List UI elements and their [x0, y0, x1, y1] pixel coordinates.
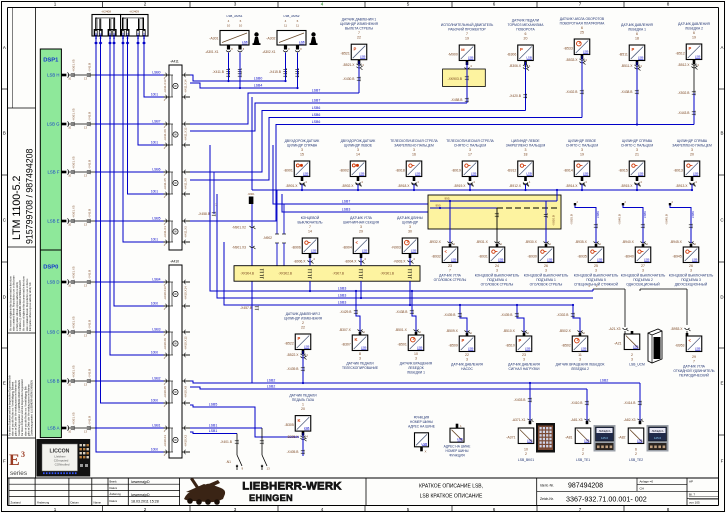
- svg-text:ЦИЛИНДР СПРАВА: ЦИЛИНДР СПРАВА: [622, 139, 653, 143]
- svg-text:Fur dieses Dokument und den da: Fur dieses Dokument und den dargestellte…: [8, 374, 11, 436]
- wire to B931: [496, 208, 498, 243]
- yellow box -X930.B: [428, 195, 561, 229]
- svg-text:10: 10: [239, 23, 243, 27]
- Liebherr logo: [184, 478, 342, 505]
- svg-text:3: 3: [690, 269, 692, 273]
- svg-text:LSB G: LSB G: [47, 121, 60, 126]
- svg-text:6: 6: [581, 26, 583, 30]
- svg-text:-B904: -B904: [342, 246, 351, 250]
- sensor -B906: [291, 216, 322, 264]
- svg-text:3: 3: [525, 148, 527, 152]
- svg-text:LIEBHERR-WERK: LIEBHERR-WERK: [242, 481, 342, 493]
- svg-text:P: P: [631, 47, 634, 52]
- svg-text:-B906: -B906: [291, 246, 300, 250]
- LICCON monitor: [36, 439, 90, 477]
- svg-text:-N903: -N903: [391, 246, 401, 250]
- svg-text:-X429.B: -X429.B: [340, 310, 353, 314]
- svg-text:alten wir uns alle Rechte vor.: alten wir uns alle Rechte vor. Vervielfa…: [12, 381, 15, 436]
- svg-text:3: 3: [360, 225, 362, 229]
- svg-text:-B902: -B902: [339, 169, 348, 173]
- svg-text:10b1: 10b1: [126, 33, 130, 39]
- svg-text:LSB: LSB: [451, 258, 457, 262]
- svg-text:LSB: LSB: [361, 346, 367, 350]
- connector -N901.X2: [232, 225, 255, 229]
- sensor -B521: [340, 18, 379, 70]
- svg-text:-B945.X: -B945.X: [670, 240, 683, 244]
- junction box: [249, 197, 254, 205]
- wire AMS2 pin to LSB0: [285, 53, 287, 82]
- wire AMS1 pin to LSB0: [228, 53, 230, 82]
- sensor -B533: [560, 17, 606, 65]
- svg-text:19: 19: [465, 37, 469, 41]
- svg-text:Datum: Datum: [110, 486, 118, 490]
- svg-text:LSB: LSB: [311, 249, 317, 253]
- svg-text:-A410.X14: -A410.X14: [184, 286, 188, 300]
- svg-text:LSB: LSB: [525, 347, 531, 351]
- svg-text:-X42.B: -X42.B: [88, 416, 92, 425]
- svg-text:LSB F: LSB F: [48, 169, 60, 174]
- wire -B902 to row2 bus: [357, 184, 359, 190]
- svg-text:LSB5: LSB5: [152, 216, 160, 220]
- svg-text:ТЕЛЕСКОПИЧЕСКАЯ СТРЕЛА: ТЕЛЕСКОПИЧЕСКАЯ СТРЕЛА: [390, 139, 438, 143]
- wire 10b0 x=110: [108, 31, 163, 356]
- svg-text:25: 25: [580, 31, 584, 35]
- svg-text:K: K: [354, 337, 357, 342]
- svg-text:-B906.X: -B906.X: [294, 259, 307, 263]
- svg-text:10b1: 10b1: [151, 237, 158, 241]
- svg-text:-X42.B: -X42.B: [88, 63, 92, 72]
- svg-text:-B931: -B931: [478, 255, 487, 259]
- svg-text:-B912: -B912: [507, 169, 516, 173]
- sensor -M900: [441, 23, 494, 71]
- svg-text:LSB: LSB: [692, 258, 698, 262]
- svg-text:LSB_TE2: LSB_TE2: [629, 458, 643, 462]
- display icon TE1: [594, 425, 616, 452]
- svg-text:-A410.X8: -A410.X8: [184, 386, 188, 398]
- svg-text:-A411.X1: -A411.X1: [163, 226, 167, 238]
- svg-text:22: 22: [357, 36, 361, 40]
- svg-text:17: 17: [468, 153, 472, 157]
- svg-text:ВЫКЛЮЧАТЕЛЬ: ВЫКЛЮЧАТЕЛЬ: [297, 220, 322, 224]
- wires through yellow strip down: [309, 281, 311, 291]
- svg-text:-A2408: -A2408: [101, 9, 111, 13]
- svg-text:-X438.B: -X438.B: [396, 310, 409, 314]
- svg-text:-X42.B: -X42.B: [88, 369, 92, 378]
- sensor -B918: [390, 139, 438, 187]
- svg-text:-B305.X: -B305.X: [287, 435, 300, 439]
- svg-text:Änderung: Änderung: [110, 492, 122, 496]
- sidebar disclaimer RU: [8, 374, 33, 436]
- svg-text:AP: AP: [689, 479, 693, 483]
- svg-text:Name: Name: [94, 501, 102, 505]
- keypad icon: [536, 423, 555, 453]
- row2 bus: [252, 189, 692, 191]
- svg-text:10b0: 10b0: [112, 33, 116, 39]
- svg-text:7: 7: [309, 225, 311, 229]
- svg-text:IwwemajpD: IwwemajpD: [131, 493, 150, 497]
- svg-text:-B940.X: -B940.X: [622, 240, 635, 244]
- svg-text:26: 26: [544, 264, 548, 268]
- sensor -B522: [284, 312, 323, 360]
- svg-text:P: P: [520, 47, 523, 52]
- yellow box -XK903.B: [443, 69, 486, 87]
- svg-text:ТОРМОЗ МЕХАНИЗМА: ТОРМОЗ МЕХАНИЗМА: [508, 23, 545, 27]
- connector -X457.B: [240, 306, 258, 310]
- sensor -B935: [574, 240, 619, 287]
- svg-text:LSB B: LSB B: [47, 378, 59, 383]
- svg-text:ЛЕБЕДОК: ЛЕБЕДОК: [408, 366, 424, 370]
- svg-text:ДАТЧИК УГЛА: ДАТЧИК УГЛА: [683, 364, 705, 368]
- svg-text:LSB7: LSB7: [312, 99, 321, 103]
- svg-text:P: P: [353, 46, 356, 51]
- svg-text:-X930.B: -X930.B: [552, 215, 556, 226]
- svg-text:LSB: LSB: [457, 437, 463, 441]
- svg-text:LSB: LSB: [693, 172, 699, 176]
- svg-text:B: B: [721, 131, 724, 136]
- svg-text:СИГНАЛ НАГРУЗКИ: СИГНАЛ НАГРУЗКИ: [508, 367, 540, 371]
- svg-text:alten wir uns alle Rechte vor.: alten wir uns alle Rechte vor. Vervielfa…: [24, 385, 27, 436]
- svg-text:ЛЕБЕДКА 2: ЛЕБЕДКА 2: [571, 367, 589, 371]
- svg-text:3: 3: [21, 450, 25, 459]
- svg-text:D: D: [3, 295, 6, 300]
- svg-text:20: 20: [301, 407, 305, 411]
- wire -B502 from LSB3: [572, 305, 574, 315]
- svg-text:1: 1: [302, 402, 304, 406]
- svg-text:29: 29: [359, 230, 363, 234]
- svg-text:ОГОЛОВОК СТРЕЛЫ: ОГОЛОВОК СТРЕЛЫ: [530, 282, 563, 286]
- svg-text:-XK901.B: -XK901.B: [380, 272, 394, 276]
- wire elbow -X935.B: [570, 200, 600, 243]
- svg-text:LSB: LSB: [415, 172, 421, 176]
- svg-text:gabe an Dritte oder Verwendung: gabe an Dritte oder Verwendung ausser im…: [15, 380, 18, 436]
- svg-text:10b1: 10b1: [121, 33, 125, 39]
- svg-text:-A302: -A302: [266, 37, 275, 41]
- svg-text:ЛЕБЕДКА: ЛЕБЕДКА: [652, 429, 664, 433]
- sensor -B501: [395, 328, 433, 375]
- connector -X458.B left: [198, 172, 218, 216]
- sensor -B510: [503, 329, 541, 371]
- svg-text:ПОДЪЕМА 1: ПОДЪЕМА 1: [536, 278, 556, 282]
- svg-text:ation contained therein. Repro: ation contained therein. Reproduction, u…: [13, 275, 16, 331]
- svg-text:LSB0: LSB0: [254, 77, 263, 81]
- svg-text:-X502.B: -X502.B: [678, 91, 691, 95]
- svg-text:LSB2: LSB2: [267, 379, 276, 383]
- svg-text:-B953.X: -B953.X: [671, 327, 684, 331]
- svg-text:ТЕЛЕСКОПИЧЕСКАЯ СТРЕЛА: ТЕЛЕСКОПИЧЕСКАЯ СТРЕЛА: [446, 139, 494, 143]
- svg-text:ПОДЪЕМА 2: ПОДЪЕМА 2: [633, 278, 653, 282]
- svg-text:-A361.X5: -A361.X5: [72, 316, 76, 329]
- svg-text:КОНЦЕВОЙ ВЫКЛЮЧАТЕЛЬ: КОНЦЕВОЙ ВЫКЛЮЧАТЕЛЬ: [574, 273, 619, 277]
- svg-text:ДАТЧИК ДАВЛЕНИЯ: ДАТЧИК ДАВЛЕНИЯ: [678, 22, 710, 26]
- svg-text:LSB3: LSB3: [338, 294, 347, 298]
- wire 995: [430, 200, 557, 202]
- svg-text:2: 2: [635, 452, 637, 456]
- svg-text:10b1: 10b1: [151, 189, 158, 193]
- svg-text:14: 14: [308, 230, 312, 234]
- svg-text:2: 2: [302, 321, 304, 325]
- svg-text:ЦИЛИНДР ЛЕВОЕ: ЦИЛИНДР ЛЕВОЕ: [568, 139, 597, 143]
- svg-text:LSB: LSB: [417, 346, 423, 350]
- svg-text:6: 6: [693, 31, 695, 35]
- svg-text:-B511.X: -B511.X: [621, 64, 633, 68]
- bus LSB3 3: [224, 242, 573, 305]
- wire -B901 to row2 bus: [301, 184, 303, 190]
- svg-text:-A81: -A81: [565, 436, 572, 440]
- svg-text:-X42.B: -X42.B: [88, 320, 92, 329]
- svg-text:LSB E: LSB E: [47, 218, 59, 223]
- svg-text:LSB3: LSB3: [338, 301, 347, 305]
- svg-text:-B914.X: -B914.X: [566, 184, 579, 188]
- svg-text:LSB6: LSB6: [312, 106, 321, 110]
- svg-text:НАСОС: НАСОС: [461, 367, 473, 371]
- svg-text:987494208: 987494208: [568, 483, 603, 490]
- svg-text:7: 7: [579, 507, 582, 512]
- svg-text:10b0: 10b0: [151, 301, 158, 305]
- svg-text:LSB: LSB: [362, 249, 368, 253]
- wire 10b0 x=100.5: [99, 31, 164, 404]
- anlage box: [637, 478, 687, 491]
- svg-text:-B501: -B501: [397, 343, 406, 347]
- svg-text:АДРЕС НА ШИНЕ: АДРЕС НА ШИНЕ: [408, 424, 435, 428]
- svg-text:-B502: -B502: [561, 344, 570, 348]
- switch -N1: [226, 428, 270, 471]
- svg-text:3: 3: [579, 358, 581, 362]
- svg-text:forbidden. (c) LIEBHERR-WERK: forbidden. (c) LIEBHERR-WERK EHINGEN Gmb…: [19, 280, 22, 331]
- svg-text:LSB: LSB: [583, 172, 589, 176]
- svg-text:-B953: -B953: [675, 344, 684, 348]
- svg-text:ПОДЪЕМА 3: ПОДЪЕМА 3: [681, 278, 701, 282]
- svg-text:ЦИЛИНДР СПРАВА: ЦИЛИНДР СПРАВА: [287, 143, 318, 147]
- svg-text:LSB9: LSB9: [691, 211, 695, 218]
- svg-text:-A361.X5: -A361.X5: [72, 205, 76, 218]
- svg-text:990: 990: [435, 203, 440, 207]
- bus LSB2 a: [190, 381, 640, 383]
- svg-text:-XK903.B: -XK903.B: [447, 77, 462, 81]
- svg-text:7: 7: [449, 269, 451, 273]
- wire -B912 to row2 bus: [525, 184, 527, 190]
- wire x252 drop: [251, 97, 253, 190]
- svg-text:ФУНКЦИЯ: ФУНКЦИЯ: [449, 454, 465, 458]
- svg-text:-X42.B: -X42.B: [88, 160, 92, 169]
- svg-text:LSB КРАТКОЕ ОПИСАНИЕ: LSB КРАТКОЕ ОПИСАНИЕ: [420, 494, 483, 500]
- svg-text:Zustimmung gestattet. (c) LIEB: Zustimmung gestattet. (c) LIEBHERR-WERK …: [31, 380, 34, 436]
- svg-text:ДАТЧИК ПЕДАЛИ: ДАТЧИК ПЕДАЛИ: [512, 18, 540, 22]
- svg-text:E: E: [3, 381, 6, 386]
- svg-text:P: P: [518, 338, 521, 343]
- svg-text:8: 8: [667, 507, 670, 512]
- svg-text:-N1: -N1: [226, 460, 231, 464]
- svg-text:-A82.X3: -A82.X3: [624, 418, 636, 422]
- svg-text:-B914: -B914: [563, 169, 572, 173]
- svg-text:ЦИЛИНДР СПРАВА: ЦИЛИНДР СПРАВА: [677, 139, 708, 143]
- svg-text:-A410: -A410: [170, 260, 179, 264]
- wire 10b1 x=138: [136, 31, 163, 146]
- svg-text:CH: CH: [640, 486, 644, 490]
- bus LSB4: [190, 83, 298, 88]
- svg-text:LSB6: LSB6: [152, 167, 160, 171]
- connector -A2409: [121, 9, 148, 36]
- svg-text:КРАТКОЕ ОПИСАНИЕ LSB,: КРАТКОЕ ОПИСАНИЕ LSB,: [419, 484, 483, 490]
- sensor -B902: [339, 139, 375, 187]
- svg-text:LSB A: LSB A: [48, 425, 60, 430]
- svg-text:-B522.X: -B522.X: [287, 353, 300, 357]
- svg-text:10b0: 10b0: [151, 398, 158, 402]
- wire 10b0 x=96: [94, 31, 163, 453]
- device -A81 LSB_TE1: [565, 421, 591, 462]
- svg-text:third parties without express: third parties without express authority …: [29, 281, 32, 331]
- svg-text:-X430.B: -X430.B: [343, 77, 356, 81]
- wire -B307 from LSB3: [355, 291, 357, 312]
- svg-text:LSB: LSB: [583, 50, 589, 54]
- svg-text:10b1: 10b1: [151, 140, 158, 144]
- wire elbow -X945.B: [665, 200, 695, 243]
- svg-text:3: 3: [496, 269, 498, 273]
- bus LSB6 a: [190, 111, 526, 173]
- svg-text:LSB: LSB: [637, 439, 643, 443]
- sensor -B306: [507, 18, 544, 70]
- svg-text:-A361.X5: -A361.X5: [72, 156, 76, 169]
- sensor -B913: [672, 139, 712, 187]
- svg-text:P: P: [688, 46, 691, 51]
- svg-text:LSB: LSB: [471, 172, 477, 176]
- svg-text:125.0: 125.0: [654, 436, 661, 440]
- svg-text:LSB_UCM: LSB_UCM: [629, 362, 645, 366]
- svg-text:18: 18: [524, 153, 528, 157]
- wire -N903 down to yellow strip: [409, 258, 411, 266]
- svg-text:10b1: 10b1: [136, 33, 140, 39]
- svg-text:Datum: Datum: [71, 501, 80, 505]
- bus LSB7 b: [190, 103, 467, 131]
- svg-text:-A301.X1: -A301.X1: [205, 50, 219, 54]
- svg-text:ОГОЛОВОК СТРЕЛЫ: ОГОЛОВОК СТРЕЛЫ: [434, 278, 467, 282]
- sensor -B931: [475, 240, 520, 287]
- svg-text:АДРЕС НА ШИНЕ: АДРЕС НА ШИНЕ: [444, 445, 471, 449]
- svg-text:3: 3: [545, 269, 547, 273]
- sensor -B930: [524, 240, 569, 287]
- svg-text:-X414.B: -X414.B: [624, 401, 637, 405]
- svg-text:7: 7: [579, 1, 582, 6]
- svg-text:LSB: LSB: [695, 55, 701, 59]
- svg-text:-B511: -B511: [619, 53, 628, 57]
- svg-text:3: 3: [523, 358, 525, 362]
- svg-text:СНЯТО С ПАЛЬЦЕМ: СНЯТО С ПАЛЬЦЕМ: [566, 143, 598, 147]
- sensor -B912: [506, 139, 546, 187]
- bus LSB1 b: [190, 432, 237, 434]
- svg-text:-A410.X5: -A410.X5: [163, 386, 167, 398]
- svg-text:-B919.X: -B919.X: [454, 184, 467, 188]
- svg-text:125.0: 125.0: [601, 436, 608, 440]
- svg-text:LSB0: LSB0: [152, 70, 160, 74]
- svg-text:-B915.X: -B915.X: [621, 184, 634, 188]
- svg-text:-X443.B: -X443.B: [678, 111, 691, 115]
- sensor -B307: [339, 328, 379, 370]
- svg-text:3: 3: [234, 507, 237, 512]
- svg-text:ДАТЧИК ПЕДАЛИ: ДАТЧИК ПЕДАЛИ: [346, 361, 374, 365]
- svg-text:-B940: -B940: [624, 255, 633, 259]
- wire -B510 from LSB3: [516, 305, 518, 315]
- svg-text:3: 3: [409, 225, 411, 229]
- svg-text:2: 2: [525, 452, 527, 456]
- svg-text:ЦИЛИНДР ИЗМЕНЕНИЯ: ЦИЛИНДР ИЗМЕНЕНИЯ: [340, 22, 379, 26]
- LSB amplifier -A301: [205, 14, 249, 54]
- svg-text:-A361.X5: -A361.X5: [72, 59, 76, 72]
- svg-text:ПОДЪЕМА 5: ПОДЪЕМА 5: [586, 278, 606, 282]
- svg-text:-B521.X: -B521.X: [343, 63, 356, 67]
- svg-text:24: 24: [495, 264, 499, 268]
- svg-text:-A371: -A371: [506, 436, 515, 440]
- device -A82 LSB_TE2: [618, 421, 644, 462]
- svg-text:-B510: -B510: [505, 344, 514, 348]
- svg-text:-B918: -B918: [395, 169, 404, 173]
- svg-text:-M900: -M900: [448, 53, 458, 57]
- svg-text:-B901: -B901: [283, 169, 292, 173]
- svg-text:LSB: LSB: [597, 258, 603, 262]
- svg-text:LSB1: LSB1: [209, 424, 218, 428]
- sensor -B919: [446, 139, 494, 187]
- svg-text:ДВУХДОРОЖ.ДАТЧИК: ДВУХДОРОЖ.ДАТЧИК: [285, 139, 320, 143]
- svg-text:РАБОЧИЙ ПРОЖЕКТОР: РАБОЧИЙ ПРОЖЕКТОР: [448, 27, 486, 31]
- DSP port LSB F: [48, 156, 164, 177]
- wire 10b1 x=123: [121, 31, 163, 243]
- svg-text:-X457.B: -X457.B: [240, 306, 253, 310]
- svg-text:ПЕДАЛЬ ГАЗА: ПЕДАЛЬ ГАЗА: [292, 398, 315, 402]
- svg-text:6: 6: [493, 507, 496, 512]
- svg-text:10: 10: [524, 448, 528, 452]
- sensor -N903: [391, 216, 423, 264]
- wire B305 down: [302, 433, 304, 456]
- svg-text:-A411.X14: -A411.X14: [184, 79, 188, 93]
- svg-text:-B930: -B930: [527, 255, 536, 259]
- svg-text:-X439.B: -X439.B: [287, 367, 300, 371]
- bus LSB6 c: [190, 125, 694, 222]
- svg-text:-N903.X: -N903.X: [393, 259, 406, 263]
- description box: [366, 478, 537, 506]
- svg-text:ДАТЧИК ДАВЛЕНИЯ: ДАТЧИК ДАВЛЕНИЯ: [508, 362, 540, 366]
- svg-text:3: 3: [234, 1, 237, 6]
- svg-text:КОНЦЕВОЙ ВЫКЛЮЧАТЕЛЬ: КОНЦЕВОЙ ВЫКЛЮЧАТЕЛЬ: [524, 273, 569, 277]
- svg-text:-X402.B: -X402.B: [566, 90, 579, 94]
- svg-text:P: P: [297, 336, 300, 341]
- svg-text:10b1: 10b1: [151, 92, 158, 96]
- svg-text:-B935.X: -B935.X: [575, 240, 588, 244]
- svg-text:D: D: [720, 295, 723, 300]
- svg-text:-X458.B: -X458.B: [198, 212, 211, 216]
- svg-text:-B533.X: -B533.X: [566, 58, 579, 62]
- svg-text:Änderung: Änderung: [37, 501, 50, 505]
- stub up right: [556, 195, 558, 201]
- DSP controller block: [40, 49, 61, 438]
- svg-text:LSB6: LSB6: [312, 113, 321, 117]
- bus LSB7 a: [190, 93, 359, 124]
- svg-text:LSB: LSB: [303, 172, 309, 176]
- svg-text:-B509.X: -B509.X: [446, 329, 459, 333]
- svg-text:2: 2: [582, 452, 584, 456]
- svg-text:X: X: [425, 450, 427, 454]
- svg-text:ДВУХСЕКЦИОННЫЙ: ДВУХСЕКЦИОННЫЙ: [675, 282, 708, 286]
- svg-text:LTM 1100-5.2: LTM 1100-5.2: [11, 176, 23, 240]
- svg-text:E: E: [721, 381, 724, 386]
- svg-text:LSB: LSB: [422, 442, 428, 446]
- svg-text:ОДНОСЕКЦИОННЫЙ: ОДНОСЕКЦИОННЫЙ: [626, 282, 660, 286]
- sensor -B511: [619, 23, 654, 71]
- wire AMS1 pin to LSB4: [239, 53, 241, 89]
- svg-text:ШАРНИРНАЯ СЕКЦИЯ: ШАРНИРНАЯ СЕКЦИЯ: [343, 220, 380, 224]
- DSP port LSB B: [47, 365, 163, 386]
- wire -B914 to row2 bus: [581, 184, 583, 190]
- svg-text:series: series: [10, 470, 27, 477]
- yellow connector strip -XK90x: [234, 266, 420, 282]
- svg-text:-A411.X12: -A411.X12: [184, 127, 188, 141]
